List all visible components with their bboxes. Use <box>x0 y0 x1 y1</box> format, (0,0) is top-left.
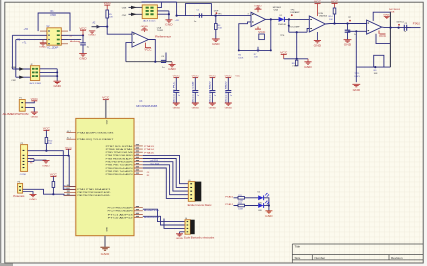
wire C7 to ground <box>347 32 349 39</box>
svg-text:AudioGauche: AudioGauche <box>144 216 160 219</box>
diode D1 <box>279 17 285 22</box>
power VCC above U7A <box>314 1 322 16</box>
wire left input row3 <box>16 39 47 41</box>
resistor R11 body <box>238 197 245 200</box>
svg-text:PTA16: PTA16 <box>225 195 234 198</box>
wire bundle MCU to J3 net1 <box>143 155 189 183</box>
svg-text:GND: GND <box>344 44 352 47</box>
U6A inverting input staircase wire <box>239 22 251 51</box>
svg-text:DSP: DSP <box>214 10 219 12</box>
svg-text:1u: 1u <box>230 95 232 97</box>
resistor R1 feedback loop wire <box>38 13 70 31</box>
wire diode to U7A <box>285 18 310 20</box>
MCU inside labels bottom-right <box>108 207 133 220</box>
svg-text:GND: GND <box>304 66 312 69</box>
svg-text:TL082: TL082 <box>157 30 164 32</box>
U1B bottom loop <box>376 34 390 44</box>
wire P1 pin2 to ground <box>25 107 34 112</box>
U6A output wire <box>265 18 278 20</box>
wire J1 pin2 <box>157 10 169 12</box>
wire port to junction <box>100 26 108 28</box>
power VCC atop pull-up R14 <box>331 0 339 8</box>
capacitor C4 plates <box>161 60 166 62</box>
power VCC above junction <box>79 27 87 35</box>
junction dot <box>288 25 290 27</box>
svg-text:CON6: CON6 <box>20 174 27 176</box>
svg-text:+7L: +7L <box>22 41 27 44</box>
wire bundle MCU to J3 net4 <box>143 165 189 195</box>
capacitor C2 stack wire <box>82 35 84 42</box>
svg-text:VCC: VCC <box>79 27 87 30</box>
svg-text:R3: R3 <box>147 175 149 177</box>
ground floating above U1B <box>383 14 391 18</box>
power VCC atop R10 <box>43 129 51 138</box>
op-amp U1B input marks <box>368 23 370 32</box>
svg-text:1u: 1u <box>197 95 199 97</box>
svg-text:1N4148: 1N4148 <box>278 24 286 26</box>
wire top rail down to signal node <box>176 2 178 16</box>
connector J3 black shroud <box>195 182 201 202</box>
svg-text:Title: Title <box>295 245 301 249</box>
wire tap to U7A inverting <box>289 31 307 33</box>
power VCC below U1B <box>379 31 387 39</box>
svg-text:PTA2 PTA2 TPMCCH0 ADP1 ACMP-: PTA2 PTA2 TPMCCH0 ADP1 ACMP- <box>77 191 110 194</box>
feedback bottom wire <box>239 49 271 51</box>
ground under C7 <box>344 40 352 47</box>
svg-text:PTB2 PB2 SPSCK ADP6: PTB2 PB2 SPSCK ADP6 <box>106 161 133 164</box>
ground under U2 left <box>39 40 47 49</box>
svg-text:DSPL: DSPL <box>354 76 360 78</box>
svg-text:GND: GND <box>254 5 262 7</box>
svg-text:MC9S08JM8: MC9S08JM8 <box>136 106 158 108</box>
wire P2 pin2 bkgd net to MCU <box>28 156 76 187</box>
svg-text:JACK 3.5MM: JACK 3.5MM <box>29 82 41 85</box>
wire R4 to ground <box>215 30 217 39</box>
svg-text:VCC: VCC <box>31 99 39 101</box>
wire MCU PTC2 to J4 <box>143 216 185 225</box>
junction dot on rail <box>374 66 376 68</box>
ground under J2 pins <box>54 81 62 88</box>
wire J4 pin4 stub <box>180 231 186 233</box>
svg-text:PTC1 ADP13: PTC1 ADP13 <box>108 213 133 216</box>
svg-text:VCC: VCC <box>379 35 387 38</box>
resistor R14 body <box>333 8 336 14</box>
small loop above rail <box>374 55 384 67</box>
svg-text:Ecole Invens blanc: Ecole Invens blanc <box>188 205 213 207</box>
connector J4 yellow body <box>185 220 190 235</box>
junction dot <box>68 155 70 157</box>
MCU left pins top <box>67 133 76 140</box>
svg-text:IC_2DIP: IC_2DIP <box>47 47 58 50</box>
svg-text:GND: GND <box>39 47 47 49</box>
op-amp U1B triangle <box>367 20 382 34</box>
op-amp U6A triangle <box>251 12 265 26</box>
svg-text:GND: GND <box>168 68 176 71</box>
U1A feedback loop wire <box>126 43 132 62</box>
ground at J4 <box>176 232 184 240</box>
capacitor C10 decoupling stack <box>173 76 181 110</box>
svg-text:GND: GND <box>79 57 87 60</box>
svg-text:10K: 10K <box>329 19 333 21</box>
wire PTA12 to LED <box>234 205 259 207</box>
resistor R4 wire <box>215 16 217 24</box>
op-amp U7A input marks <box>310 19 312 29</box>
wire vertical to jack J2 pin2 <box>15 40 17 78</box>
svg-text:PTA4 ACMPO BKGD MS: PTA4 ACMPO BKGD MS <box>77 132 114 135</box>
junction dot <box>296 58 298 60</box>
svg-text:10K: 10K <box>48 143 52 145</box>
svg-text:PTB3 PB3 MOSI ADP7: PTB3 PB3 MOSI ADP7 <box>106 157 133 160</box>
svg-text:Deco de MCU: Deco de MCU <box>210 81 212 103</box>
svg-text:GND: GND <box>31 116 39 118</box>
resistor R4 body <box>215 24 218 30</box>
svg-text:PTA15: PTA15 <box>144 151 155 154</box>
svg-text:GND: GND <box>212 42 220 46</box>
wire P3 pin2 to ground <box>23 192 33 195</box>
svg-text:PTC3 TPMCCH1 ADP9: PTC3 TPMCCH1 ADP9 <box>108 207 133 210</box>
jack J2 body <box>30 66 39 81</box>
jack J1 green pin marks <box>146 7 154 16</box>
power VCC near MCU left <box>65 147 73 155</box>
junction dot after diode <box>288 18 290 20</box>
wire J1 pin3 <box>157 13 169 15</box>
ground under R4 <box>212 39 220 46</box>
connector J4 pin marks <box>187 221 189 232</box>
wire with arrow CN8 into J1 <box>122 6 142 10</box>
wire LED D3 to ground rail <box>264 205 269 207</box>
wire rail down to ground <box>355 67 357 82</box>
wire J4 pin3 <box>164 219 185 229</box>
capacitor C7 wire <box>347 24 349 30</box>
svg-text:PTB0 PB0 RxD ADP4: PTB0 PB0 RxD ADP4 <box>106 173 133 176</box>
IC U2 pins <box>40 31 68 44</box>
svg-text:100R: 100R <box>238 208 243 210</box>
svg-text:+1R: +1R <box>175 20 179 22</box>
svg-text:Reference: Reference <box>155 36 172 39</box>
svg-text:470R: 470R <box>50 14 56 17</box>
svg-text:R5: R5 <box>30 163 32 165</box>
svg-text:GND: GND <box>165 24 173 27</box>
test point dot <box>398 24 400 26</box>
jack J2 right pin wires <box>40 69 58 81</box>
svg-text:VCC: VCC <box>144 49 152 52</box>
ground at P3 <box>29 194 37 201</box>
junction dot at output <box>270 18 272 20</box>
power VCC atop MCU <box>102 97 110 119</box>
svg-text:U5A: U5A <box>274 8 279 11</box>
long bottom wire <box>126 61 172 63</box>
junction dot <box>176 15 178 17</box>
wire with arrow CN2 into J1 <box>122 13 142 17</box>
svg-text:PTA12: PTA12 <box>225 203 234 206</box>
wire PTA16 to LED <box>234 197 259 199</box>
resistor R8 body <box>296 60 298 66</box>
svg-text:Ecole Bluetooth y electrodes: Ecole Bluetooth y electrodes <box>184 236 215 239</box>
signal wire to op-amp U6A <box>177 15 251 17</box>
vertical wire down to lower rail <box>355 31 357 67</box>
connector J4 black shroud <box>190 220 194 235</box>
P2 lower pin stubs <box>28 159 43 162</box>
connector P2 body <box>21 145 28 172</box>
connector J3 yellow body <box>188 182 195 202</box>
MCU inside labels bottom-left <box>77 188 111 197</box>
capacitor C11 decoupling stack <box>192 76 200 110</box>
junction dot output <box>389 27 391 29</box>
svg-text:CN2: CN2 <box>122 15 127 17</box>
svg-text:LED: LED <box>258 210 262 212</box>
connector P3 pin mark <box>19 186 21 191</box>
svg-text:44_2: 44_2 <box>67 131 71 133</box>
LED D3 <box>258 201 269 208</box>
op-amp U1A input marks <box>133 34 135 43</box>
svg-text:Deco de MCU: Deco de MCU <box>226 81 228 103</box>
svg-text:GND: GND <box>265 216 273 218</box>
junction dot reset <box>45 150 47 152</box>
U1B top feedback loop <box>373 12 390 27</box>
svg-text:PTA14: PTA14 <box>144 148 155 151</box>
port arrow A2 <box>92 22 101 29</box>
svg-text:PTA3 PTA3 TPMCCH0 ADP1 ACMP+: PTA3 PTA3 TPMCCH0 ADP1 ACMP+ <box>77 194 111 197</box>
wire MCU PTC3 to J4 <box>143 209 185 221</box>
connector J3 pin marks <box>190 183 192 199</box>
left page edge shadow <box>0 0 1 266</box>
ground at end of bottom wire <box>168 62 176 71</box>
MCU pin number marks <box>67 144 139 217</box>
wire down to ground <box>168 11 170 20</box>
power VCC atop R5 <box>104 2 112 10</box>
power VCC atop R13 <box>50 175 58 182</box>
svg-text:06/TC1: 06/TC1 <box>397 22 405 24</box>
MCU U3 body <box>76 118 134 235</box>
ground above U6A <box>254 5 262 12</box>
svg-text:GND: GND <box>141 26 149 28</box>
wire P3 pin1 to MCU <box>23 189 76 195</box>
svg-text:TP11: TP11 <box>354 73 360 75</box>
wire VCC to ground stub <box>284 58 308 60</box>
svg-text:VDD: VDD <box>105 120 107 125</box>
svg-text:GND: GND <box>209 108 217 110</box>
svg-text:CN8: CN8 <box>11 67 16 69</box>
svg-text:Revision: Revision <box>391 256 403 260</box>
svg-text:10K: 10K <box>109 17 113 19</box>
wire C9 to output label <box>407 27 421 29</box>
op-amp U7A triangle <box>309 16 325 32</box>
svg-text:+7R: +7R <box>24 28 29 31</box>
loop wire over C1 <box>186 4 212 16</box>
test point dot <box>349 20 351 22</box>
svg-text:Potensio: Potensio <box>13 195 25 198</box>
junction dot <box>296 31 298 33</box>
wire U2 pin2 to VCC junction <box>61 34 83 36</box>
svg-text:Deco de PLL: Deco de PLL <box>174 80 176 102</box>
feedback vertical wire <box>270 19 272 50</box>
wire R10 to reset net <box>45 144 47 151</box>
resistor R13 body <box>52 182 55 188</box>
op-amp U1A triangle <box>132 32 148 47</box>
power VCC at P1 <box>31 99 39 101</box>
capacitor C9 plates <box>404 25 406 31</box>
U1A output wire to loop <box>148 40 155 62</box>
capacitor C1 plates <box>199 13 201 17</box>
svg-text:GND: GND <box>42 165 50 167</box>
junction dot <box>106 26 108 28</box>
svg-text:GND: GND <box>29 199 37 201</box>
svg-text:GND: GND <box>314 44 322 47</box>
resistor R1 labels <box>50 10 56 17</box>
wire rail to ground <box>268 206 270 211</box>
power VCC below U1A <box>144 43 152 52</box>
wire P1 pin1 to VCC <box>25 101 34 103</box>
svg-text:PTA5 IRQ TCLK RESET: PTA5 IRQ TCLK RESET <box>77 138 114 141</box>
MCU right pins rows <box>134 146 143 174</box>
capacitor C13 decoupling stack <box>225 76 233 110</box>
resistor R10 body <box>45 138 48 144</box>
svg-text:100K: 100K <box>238 57 244 59</box>
wire with arrow into J2 pin3 <box>11 76 30 83</box>
svg-text:Size: Size <box>295 256 301 260</box>
IC U2 inside pin marks <box>57 30 60 44</box>
ground above U1A <box>141 26 149 32</box>
svg-text:GND: GND <box>176 238 184 240</box>
svg-text:TOCOMP: TOCOMP <box>289 26 300 28</box>
wire node down to comparator tap <box>288 19 290 32</box>
U1B output wire <box>382 26 411 29</box>
wire bundle MCU to J3 net2 <box>143 159 189 188</box>
svg-text:GND: GND <box>54 85 62 88</box>
ground under C2 <box>79 54 87 61</box>
svg-text:CN2: CN2 <box>11 80 16 82</box>
resistor R5 body <box>106 10 109 18</box>
wire bundle MCU to J3 net5 <box>143 168 189 198</box>
svg-text:Deco de LCD: Deco de LCD <box>193 81 195 103</box>
MCU inside labels right column <box>106 145 134 176</box>
test point TP4 dot <box>291 14 293 16</box>
wire left input row2 <box>12 34 47 36</box>
bottom-left corner shading <box>0 263 13 266</box>
svg-text:PTC2 TPMCCH0 ADP8: PTC2 TPMCCH0 ADP8 <box>108 210 133 213</box>
svg-text:PTA1 PTA1 SDA ADP1: PTA1 PTA1 SDA ADP1 <box>77 188 110 191</box>
junction dot <box>82 34 84 36</box>
ground at P2 <box>42 160 50 167</box>
svg-text:PTB1 PB1 TxD ADP5: PTB1 PB1 TxD ADP5 <box>106 164 133 167</box>
svg-text:VCC: VCC <box>258 31 266 34</box>
junction dot TC <box>398 27 400 29</box>
svg-text:LM2904: LM2904 <box>319 16 328 18</box>
op-amp U6A input marks <box>252 14 254 23</box>
connector P3 body <box>18 183 23 193</box>
test point TP1 <box>216 12 223 15</box>
jack J2 green pin marks <box>32 68 38 77</box>
MCU left pins bottom <box>64 186 76 195</box>
svg-text:7.5K: 7.5K <box>218 28 223 30</box>
resistor R14 wire to output <box>334 14 336 24</box>
junction dot LED rail <box>268 204 270 206</box>
capacitor C2 plates <box>80 43 86 45</box>
power VCC at R8 node <box>280 51 288 58</box>
wire C2 to ground <box>82 45 84 53</box>
svg-text:GND: GND <box>192 108 200 110</box>
MCU ground stem <box>104 236 106 247</box>
junction dot R13 <box>52 193 54 195</box>
LED D2 <box>258 193 269 200</box>
junction dot <box>333 22 335 24</box>
svg-text:C3: C3 <box>147 172 149 174</box>
ground below LEDs <box>265 211 273 218</box>
wire junction down and right to op-amp <box>107 27 132 35</box>
jack J1 body <box>142 5 157 19</box>
title block texts <box>295 245 403 260</box>
svg-text:Number: Number <box>315 256 326 260</box>
svg-text:45_1: 45_1 <box>67 138 71 140</box>
junction dots on feedback <box>238 49 240 51</box>
svg-text:7.5K: 7.5K <box>292 65 297 67</box>
svg-text:VCC: VCC <box>235 76 240 78</box>
junction dots J2 <box>56 71 58 73</box>
title block <box>292 244 423 263</box>
junction dot TP1 <box>214 14 216 16</box>
small resistor loop below VCC <box>259 34 265 40</box>
ground right of R8 <box>304 59 312 69</box>
wire with arrow into J2 pin1 <box>11 67 30 71</box>
svg-text:pull RX0: pull RX0 <box>150 160 158 162</box>
junction for down wire <box>355 30 357 32</box>
svg-text:DSPAMP: DSPAMP <box>290 11 300 14</box>
thick vertical from output down <box>389 12 391 67</box>
svg-text:D2: D2 <box>258 192 260 194</box>
stub wire above bottom rail <box>165 53 167 62</box>
svg-text:PTB4 TPMCCH0 MISO: PTB4 TPMCCH0 MISO <box>106 155 134 157</box>
svg-text:PTB7 SCL EXTAL: PTB7 SCL EXTAL <box>106 145 133 148</box>
wire R13 to net <box>52 188 54 195</box>
resistor R12 body <box>238 204 245 207</box>
svg-text:GND: GND <box>101 252 110 256</box>
wire C7 node to U1B inverting input <box>348 30 367 32</box>
power VCC below U6A <box>255 27 266 34</box>
svg-text:PTB6 SDA XTAL: PTB6 SDA XTAL <box>106 148 133 151</box>
MCU right pins bottom group <box>134 208 143 218</box>
power arrow down on feedback <box>257 47 260 53</box>
wire J1 pin1 up to top rail <box>157 2 161 8</box>
svg-text:SCL SDA: SCL SDA <box>150 163 159 166</box>
svg-text:PTA13: PTA13 <box>144 145 155 148</box>
junction dot on bottom wire <box>154 61 156 63</box>
svg-text:10K: 10K <box>374 73 378 75</box>
capacitor C7 plates <box>345 30 351 32</box>
wire vertical to jack J2 pin <box>11 35 13 69</box>
wire bundle MCU to J3 net3 <box>143 162 189 191</box>
svg-text:GND: GND <box>353 89 361 92</box>
connector P2 pin marks <box>23 150 25 168</box>
capacitor C12 decoupling stack <box>209 76 217 110</box>
ground symbol isolated right of U2 loop <box>88 31 96 37</box>
svg-text:ALIMENTATION: ALIMENTATION <box>3 112 29 116</box>
svg-text:PTB5 TPMCCH1 MS: PTB5 TPMCCH1 MS <box>106 152 134 154</box>
connector P1 body <box>19 100 25 112</box>
svg-text:1u: 1u <box>214 95 216 97</box>
junction dot C7 <box>346 22 348 24</box>
U7A inverting wire from tap <box>307 29 309 33</box>
svg-text:1u: 1u <box>404 31 406 33</box>
svg-text:GND: GND <box>225 108 233 110</box>
svg-text:GND: GND <box>173 108 181 110</box>
wire U2 pin3 stub right <box>61 39 81 41</box>
U7A output wire <box>325 23 366 26</box>
IC U2 body <box>47 28 61 45</box>
junction dot J1 <box>168 13 170 15</box>
wire junction down to R8 node <box>296 32 298 59</box>
svg-text:PTB1 PB1 TxD ADP5: PTB1 PB1 TxD ADP5 <box>106 170 133 173</box>
lower rail wire <box>356 66 390 68</box>
